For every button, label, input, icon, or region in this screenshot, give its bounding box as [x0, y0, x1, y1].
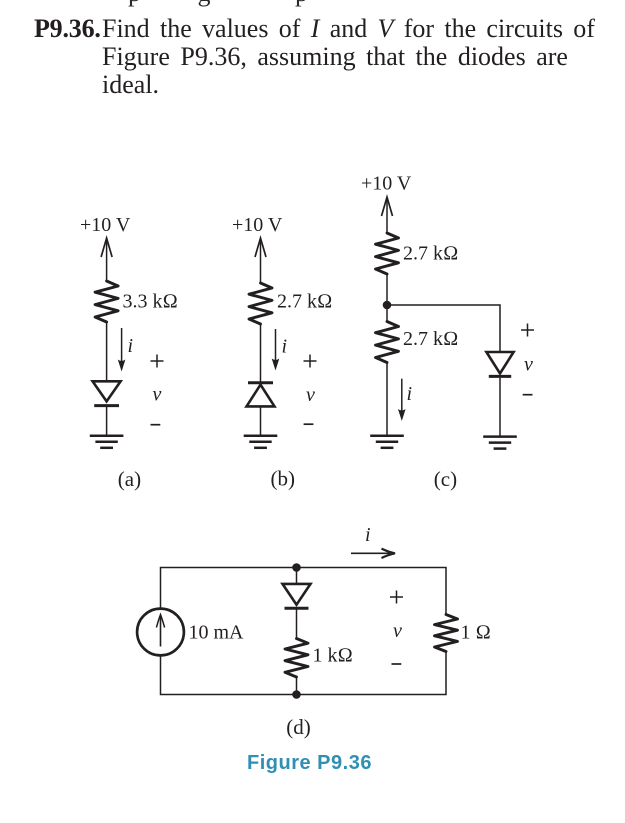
svg-text:2.7 kΩ: 2.7 kΩ — [403, 328, 458, 350]
current arrow i (a) — [118, 328, 126, 372]
wire node to right branch (c) — [387, 305, 500, 352]
wire bottom side (d) — [161, 652, 447, 695]
figure caption Figure P9.36 — [247, 752, 372, 774]
svg-text:(b): (b) — [271, 467, 296, 491]
label v (c) — [524, 354, 533, 376]
svg-text:+10 V: +10 V — [232, 214, 283, 236]
svg-text:i: i — [282, 336, 288, 358]
resistor R 1 ohm (d) — [435, 615, 458, 652]
current arrow i (b) — [272, 329, 280, 371]
label (b) — [271, 467, 296, 491]
svg-text:10 mA: 10 mA — [189, 622, 245, 644]
label − (c) — [523, 394, 533, 396]
diode D (c) — [486, 352, 513, 376]
wire top side (d) — [161, 568, 447, 615]
label + (b) — [304, 355, 317, 368]
ground (a) — [90, 436, 124, 448]
wire diode to ground right (c) — [499, 378, 501, 436]
current direction arrow (d) — [351, 549, 395, 558]
wire resistor to bottom node (d) — [296, 677, 298, 695]
resistor R2 2.7k (c) — [376, 322, 399, 363]
label 2.7 kΩ (b) — [277, 291, 332, 313]
diode D (d) — [283, 584, 311, 608]
svg-text:(d): (d) — [286, 715, 311, 739]
svg-text:v: v — [306, 384, 315, 406]
label (d) — [286, 715, 311, 739]
node dot top (d) — [292, 563, 301, 572]
problem number label P9.36. — [34, 14, 101, 44]
supply arrow (a) — [101, 238, 112, 281]
resistor R 1k (d) — [285, 639, 308, 678]
resistor R 2.7k (b) — [249, 283, 272, 324]
svg-text:i: i — [365, 524, 371, 546]
svg-text:v: v — [524, 354, 533, 376]
problem statement line 2 — [102, 42, 568, 72]
label 3.3 kΩ (a) — [123, 291, 178, 313]
label + (c) — [521, 324, 534, 337]
svg-text:Figure P9.36: Figure P9.36 — [247, 752, 372, 774]
+10 V supply label (a) — [80, 214, 131, 236]
svg-text:v: v — [153, 384, 162, 406]
+10 V supply label (b) — [232, 214, 283, 236]
label + (a) — [151, 355, 164, 368]
clipped previous text line (descenders only) — [128, 0, 141, 8]
svg-text:i: i — [128, 335, 134, 357]
svg-text:(a): (a) — [118, 467, 141, 491]
label − (a) — [151, 424, 161, 426]
label 10 mA (d) — [189, 622, 245, 644]
wire diode to ground (a) — [106, 407, 108, 435]
diode D (b) cathode bar on top — [247, 383, 275, 407]
wire diode to ground (b) — [260, 406, 262, 435]
node junction dot (c) — [383, 301, 392, 310]
supply arrow (c) — [382, 197, 393, 233]
label − (b) — [304, 423, 314, 425]
label i (c) — [407, 383, 413, 405]
supply arrow (b) — [255, 238, 266, 283]
+10 V supply label (c) — [361, 173, 412, 195]
label i (b) — [282, 336, 288, 358]
wire resistor1 to node (c) — [386, 274, 388, 322]
label 2.7 kΩ lower (c) — [403, 328, 458, 350]
wire top node to diode (d) — [296, 568, 298, 584]
diode D (a) — [93, 381, 121, 405]
wire resistor to diode (a) — [106, 322, 108, 381]
node dot bottom (d) — [292, 690, 301, 699]
label 1 Ω (d) — [461, 622, 491, 644]
svg-text:2.7 kΩ: 2.7 kΩ — [277, 291, 332, 313]
svg-text:3.3 kΩ: 3.3 kΩ — [123, 291, 178, 313]
wire resistor2 to ground (c) — [386, 363, 388, 436]
label − (d) — [392, 663, 402, 665]
problem statement line 1 — [102, 14, 595, 44]
label (a) — [118, 467, 141, 491]
label v (b) — [306, 384, 315, 406]
ground (b) — [244, 436, 278, 448]
svg-text:v: v — [393, 620, 402, 642]
wire resistor to diode (b) — [260, 324, 262, 382]
ground left (c) — [370, 436, 404, 448]
svg-text:+10 V: +10 V — [361, 173, 412, 195]
ground right (c) — [483, 437, 517, 449]
label 2.7 kΩ upper (c) — [403, 243, 458, 265]
resistor R 3.3k (a) — [95, 281, 118, 322]
svg-text:i: i — [407, 383, 413, 405]
current source 10 mA (d) — [137, 609, 184, 656]
svg-text:2.7 kΩ: 2.7 kΩ — [403, 243, 458, 265]
label 1 kΩ (d) — [313, 645, 353, 667]
label (c) — [434, 467, 457, 491]
label v (a) — [153, 384, 162, 406]
current arrow i (c) — [398, 379, 406, 421]
svg-text:(c): (c) — [434, 467, 457, 491]
svg-text:1 Ω: 1 Ω — [461, 622, 491, 644]
label i (d) — [365, 524, 371, 546]
wire diode to resistor (d) — [296, 610, 298, 639]
label i (a) — [128, 335, 134, 357]
label + (d) — [390, 591, 403, 604]
problem statement line 3 — [102, 70, 159, 100]
resistor R1 2.7k (c) — [376, 233, 399, 274]
svg-text:+10 V: +10 V — [80, 214, 131, 236]
label v (d) — [393, 620, 402, 642]
svg-text:1 kΩ: 1 kΩ — [313, 645, 353, 667]
